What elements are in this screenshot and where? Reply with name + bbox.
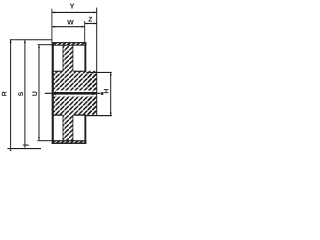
dim U arrows <box>38 45 40 141</box>
top extension line A (R/S) <box>10 39 52 41</box>
dim H arrows <box>110 72 112 115</box>
extension line mid (W/Z) <box>84 21 86 42</box>
hub bottom line + H bottom extension <box>86 115 112 116</box>
svg-text:H: H <box>103 89 110 94</box>
web left edge lower <box>62 116 65 141</box>
pulley web lower (hatched) <box>63 116 74 141</box>
web left edge upper <box>62 45 65 70</box>
svg-text:R: R <box>1 91 8 96</box>
dim Z line <box>85 23 97 25</box>
dim Y arrows <box>52 11 97 13</box>
extension line right (Y/Z + hub face) <box>96 8 98 116</box>
dim R arrows <box>10 40 12 151</box>
hub extension block (hatched) <box>86 72 96 115</box>
svg-text:Z: Z <box>88 16 92 23</box>
dim S line <box>24 40 26 145</box>
bore (white band) <box>52 91 97 97</box>
top rim band <box>52 42 87 45</box>
dim S arrows <box>24 40 26 148</box>
dim R line <box>10 40 12 149</box>
upper recess floor right <box>73 71 84 72</box>
web right edge lower <box>72 116 75 141</box>
bore arrow right <box>92 91 96 95</box>
svg-text:S: S <box>18 91 25 96</box>
dim W arrows <box>52 26 85 28</box>
svg-text:U: U <box>32 91 39 96</box>
bottom rim band <box>52 140 87 144</box>
right flange lower <box>84 114 86 144</box>
dim U line <box>38 45 40 141</box>
upper recess floor left <box>54 71 63 72</box>
U bottom extension <box>37 140 51 142</box>
centerline bore segment (thick) <box>52 92 97 95</box>
right flange upper <box>84 42 86 72</box>
left face bar <box>52 42 54 144</box>
hub top line + H top extension <box>86 72 112 73</box>
dim Z arrows <box>85 23 97 25</box>
dim Y line <box>52 11 97 13</box>
bore arrow left <box>52 91 56 95</box>
dim H line <box>110 72 112 115</box>
bore label blob <box>101 92 104 95</box>
svg-text:W: W <box>67 20 74 27</box>
S bottom extension <box>23 144 29 146</box>
dim W line <box>52 26 85 28</box>
extension line left (Y/W) <box>51 9 53 43</box>
pulley web upper (hatched) <box>63 45 74 70</box>
lower recess ceiling left <box>54 114 63 115</box>
web right edge upper <box>72 45 75 70</box>
R bottom extension <box>7 148 41 150</box>
centerline right overhang <box>97 92 101 94</box>
lower recess ceiling right <box>73 114 84 115</box>
U top extension <box>38 44 52 46</box>
centerline left overhang <box>45 92 52 94</box>
pulley center block (hatched) <box>52 71 97 116</box>
svg-text:Y: Y <box>70 1 75 10</box>
